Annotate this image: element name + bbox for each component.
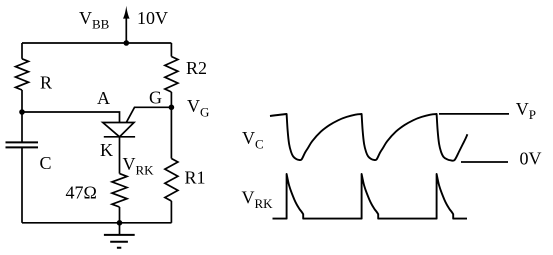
svg-text:10V: 10V: [137, 8, 168, 28]
wire R2 to node G: [170, 92, 172, 159]
waveform VRK trace: [273, 174, 468, 219]
waveform VC trace: [270, 114, 467, 161]
svg-text:G: G: [149, 88, 162, 108]
svg-text:VC: VC: [242, 128, 264, 152]
svg-text:VRK: VRK: [123, 154, 155, 178]
ground: [104, 235, 135, 248]
resistor 47ohm: [112, 174, 127, 207]
svg-text:VBB: VBB: [79, 8, 110, 32]
wire top rail: [22, 42, 171, 44]
wire ground stub: [119, 223, 121, 235]
wire left top segment: [21, 43, 23, 59]
wire supply arrow stem: [125, 16, 127, 43]
svg-text:VG: VG: [187, 96, 209, 120]
svg-text:R: R: [40, 73, 52, 93]
node A junction: [19, 109, 25, 115]
transistor Q1 PUT triangle: [103, 123, 134, 137]
wire node A to anode: [22, 112, 120, 123]
node G junction: [169, 105, 175, 111]
wire R to node A: [21, 90, 23, 112]
resistor R2: [165, 57, 178, 93]
wire cathode to resistor: [119, 137, 121, 174]
svg-text:47Ω: 47Ω: [66, 183, 97, 203]
svg-text:0V: 0V: [520, 149, 542, 169]
svg-text:VP: VP: [516, 99, 536, 122]
wire capacitor to bottom rail: [21, 147, 23, 222]
svg-text:R2: R2: [186, 58, 207, 78]
svg-text:A: A: [97, 88, 110, 108]
node ground junction: [117, 220, 123, 226]
resistor R1: [165, 159, 178, 202]
wire resistor to bottom rail: [119, 207, 121, 223]
line VP reference: [439, 113, 509, 115]
line 0V reference: [461, 161, 508, 163]
wire R1 to bottom rail: [170, 201, 172, 223]
svg-text:K: K: [100, 140, 113, 160]
svg-text:C: C: [40, 153, 52, 173]
svg-text:VRK: VRK: [242, 188, 274, 212]
wire gate lead: [126, 107, 171, 122]
node junction VBB: [124, 40, 130, 46]
resistor R: [16, 59, 29, 90]
wire bottom rail: [22, 222, 172, 224]
svg-text:R1: R1: [185, 168, 206, 188]
wire right rail top: [170, 43, 172, 57]
wire node to capacitor: [21, 112, 23, 142]
capacitor C: [6, 142, 39, 147]
supply arrowhead 10V: [123, 6, 130, 19]
transistor Q1 cathode bar: [104, 136, 135, 138]
